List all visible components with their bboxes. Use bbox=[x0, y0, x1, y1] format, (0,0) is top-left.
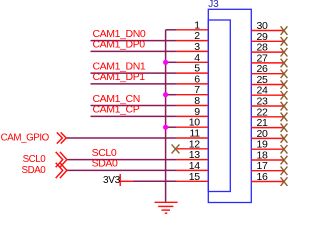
no-connect X pin 12 bbox=[172, 144, 180, 153]
connector J3 body bbox=[208, 9, 251, 202]
pin 23 bbox=[251, 96, 283, 108]
wire 3V3 to pin 15 bbox=[133, 180, 177, 182]
junction pin4/GND bbox=[163, 60, 168, 65]
pin 17 bbox=[251, 160, 283, 172]
ground symbol bbox=[155, 202, 178, 213]
no-connect X pin 29 bbox=[281, 37, 288, 46]
pin 21 bbox=[251, 117, 283, 129]
off-page chevron SCL0 bbox=[56, 152, 67, 167]
svg-text:CAM1_DP1: CAM1_DP1 bbox=[93, 71, 146, 83]
svg-text:16: 16 bbox=[257, 171, 269, 183]
ground net vertical wire bbox=[165, 30, 167, 203]
no-connect X pin 16 bbox=[281, 177, 288, 186]
wire CAM1_DN1 bbox=[91, 72, 177, 74]
wire CAM1_DN0 bbox=[91, 40, 177, 42]
junction pin7/GND bbox=[163, 92, 168, 97]
wire CAM1_DP1 bbox=[91, 83, 177, 85]
svg-text:CAM1_DP0: CAM1_DP0 bbox=[93, 39, 146, 51]
wire SDA0 bbox=[66, 169, 177, 171]
junction pin10/GND bbox=[163, 125, 168, 130]
wire CAM1_CN bbox=[91, 105, 177, 107]
pin 27 bbox=[251, 52, 283, 64]
svg-text:CAM_GPIO: CAM_GPIO bbox=[1, 133, 50, 144]
wire CAM1_CP bbox=[91, 115, 177, 117]
no-connect X pin 26 bbox=[281, 70, 288, 79]
pin 28 bbox=[251, 42, 283, 54]
off-page chevron SDA0 bbox=[56, 163, 67, 178]
no-connect X pin 19 bbox=[281, 145, 288, 154]
wire SCL0 bbox=[66, 159, 177, 161]
pin 16 bbox=[251, 171, 283, 183]
pin 9 bbox=[177, 106, 209, 118]
no-connect X pin 23 bbox=[281, 102, 288, 111]
pin 12 bbox=[177, 138, 209, 150]
pin 3 bbox=[177, 41, 209, 53]
svg-text:SDA0: SDA0 bbox=[22, 165, 47, 176]
pin 5 bbox=[177, 63, 209, 75]
no-connect X pin 24 bbox=[281, 91, 288, 100]
no-connect X pin 18 bbox=[281, 156, 288, 165]
pin 30 bbox=[251, 20, 283, 32]
no-connect X pin 27 bbox=[281, 59, 288, 68]
wire CAM_GPIO bbox=[66, 137, 177, 139]
pin 8 bbox=[177, 95, 209, 107]
off-page chevron CAM_GPIO bbox=[57, 132, 66, 143]
svg-text:SDA0: SDA0 bbox=[92, 158, 118, 170]
no-connect X pin 21 bbox=[281, 123, 288, 132]
no-connect X pin 30 bbox=[281, 26, 288, 35]
pin 10 bbox=[166, 117, 209, 129]
pin 11 bbox=[177, 128, 209, 140]
svg-text:SCL0: SCL0 bbox=[23, 154, 47, 165]
pin 2 bbox=[177, 30, 209, 42]
svg-text:J3: J3 bbox=[208, 0, 219, 10]
pin 19 bbox=[251, 139, 283, 151]
pin 7 bbox=[166, 84, 209, 96]
svg-text:CAM1_CP: CAM1_CP bbox=[93, 104, 140, 116]
pin 1 bbox=[166, 19, 209, 31]
no-connect X pin 20 bbox=[281, 134, 288, 143]
pin 26 bbox=[251, 63, 283, 75]
no-connect X pin 17 bbox=[281, 167, 288, 176]
power symbol 3V3 bbox=[120, 174, 133, 186]
pin 13 bbox=[177, 149, 209, 161]
pin 15 bbox=[177, 171, 209, 183]
pin 14 bbox=[177, 160, 209, 172]
no-connect X pin 28 bbox=[281, 48, 288, 57]
no-connect X pin 22 bbox=[281, 113, 288, 122]
pin 20 bbox=[251, 128, 283, 140]
wire CAM1_DP0 bbox=[91, 50, 177, 52]
pin 6 bbox=[177, 73, 209, 85]
no-connect X pin 25 bbox=[281, 80, 288, 89]
pin 24 bbox=[251, 85, 283, 97]
pin 18 bbox=[251, 150, 283, 162]
pin 25 bbox=[251, 74, 283, 86]
svg-text:3V3: 3V3 bbox=[103, 175, 121, 186]
pin 4 bbox=[166, 52, 209, 64]
pin 22 bbox=[251, 106, 283, 118]
pin 29 bbox=[251, 31, 283, 43]
svg-text:15: 15 bbox=[189, 171, 201, 183]
